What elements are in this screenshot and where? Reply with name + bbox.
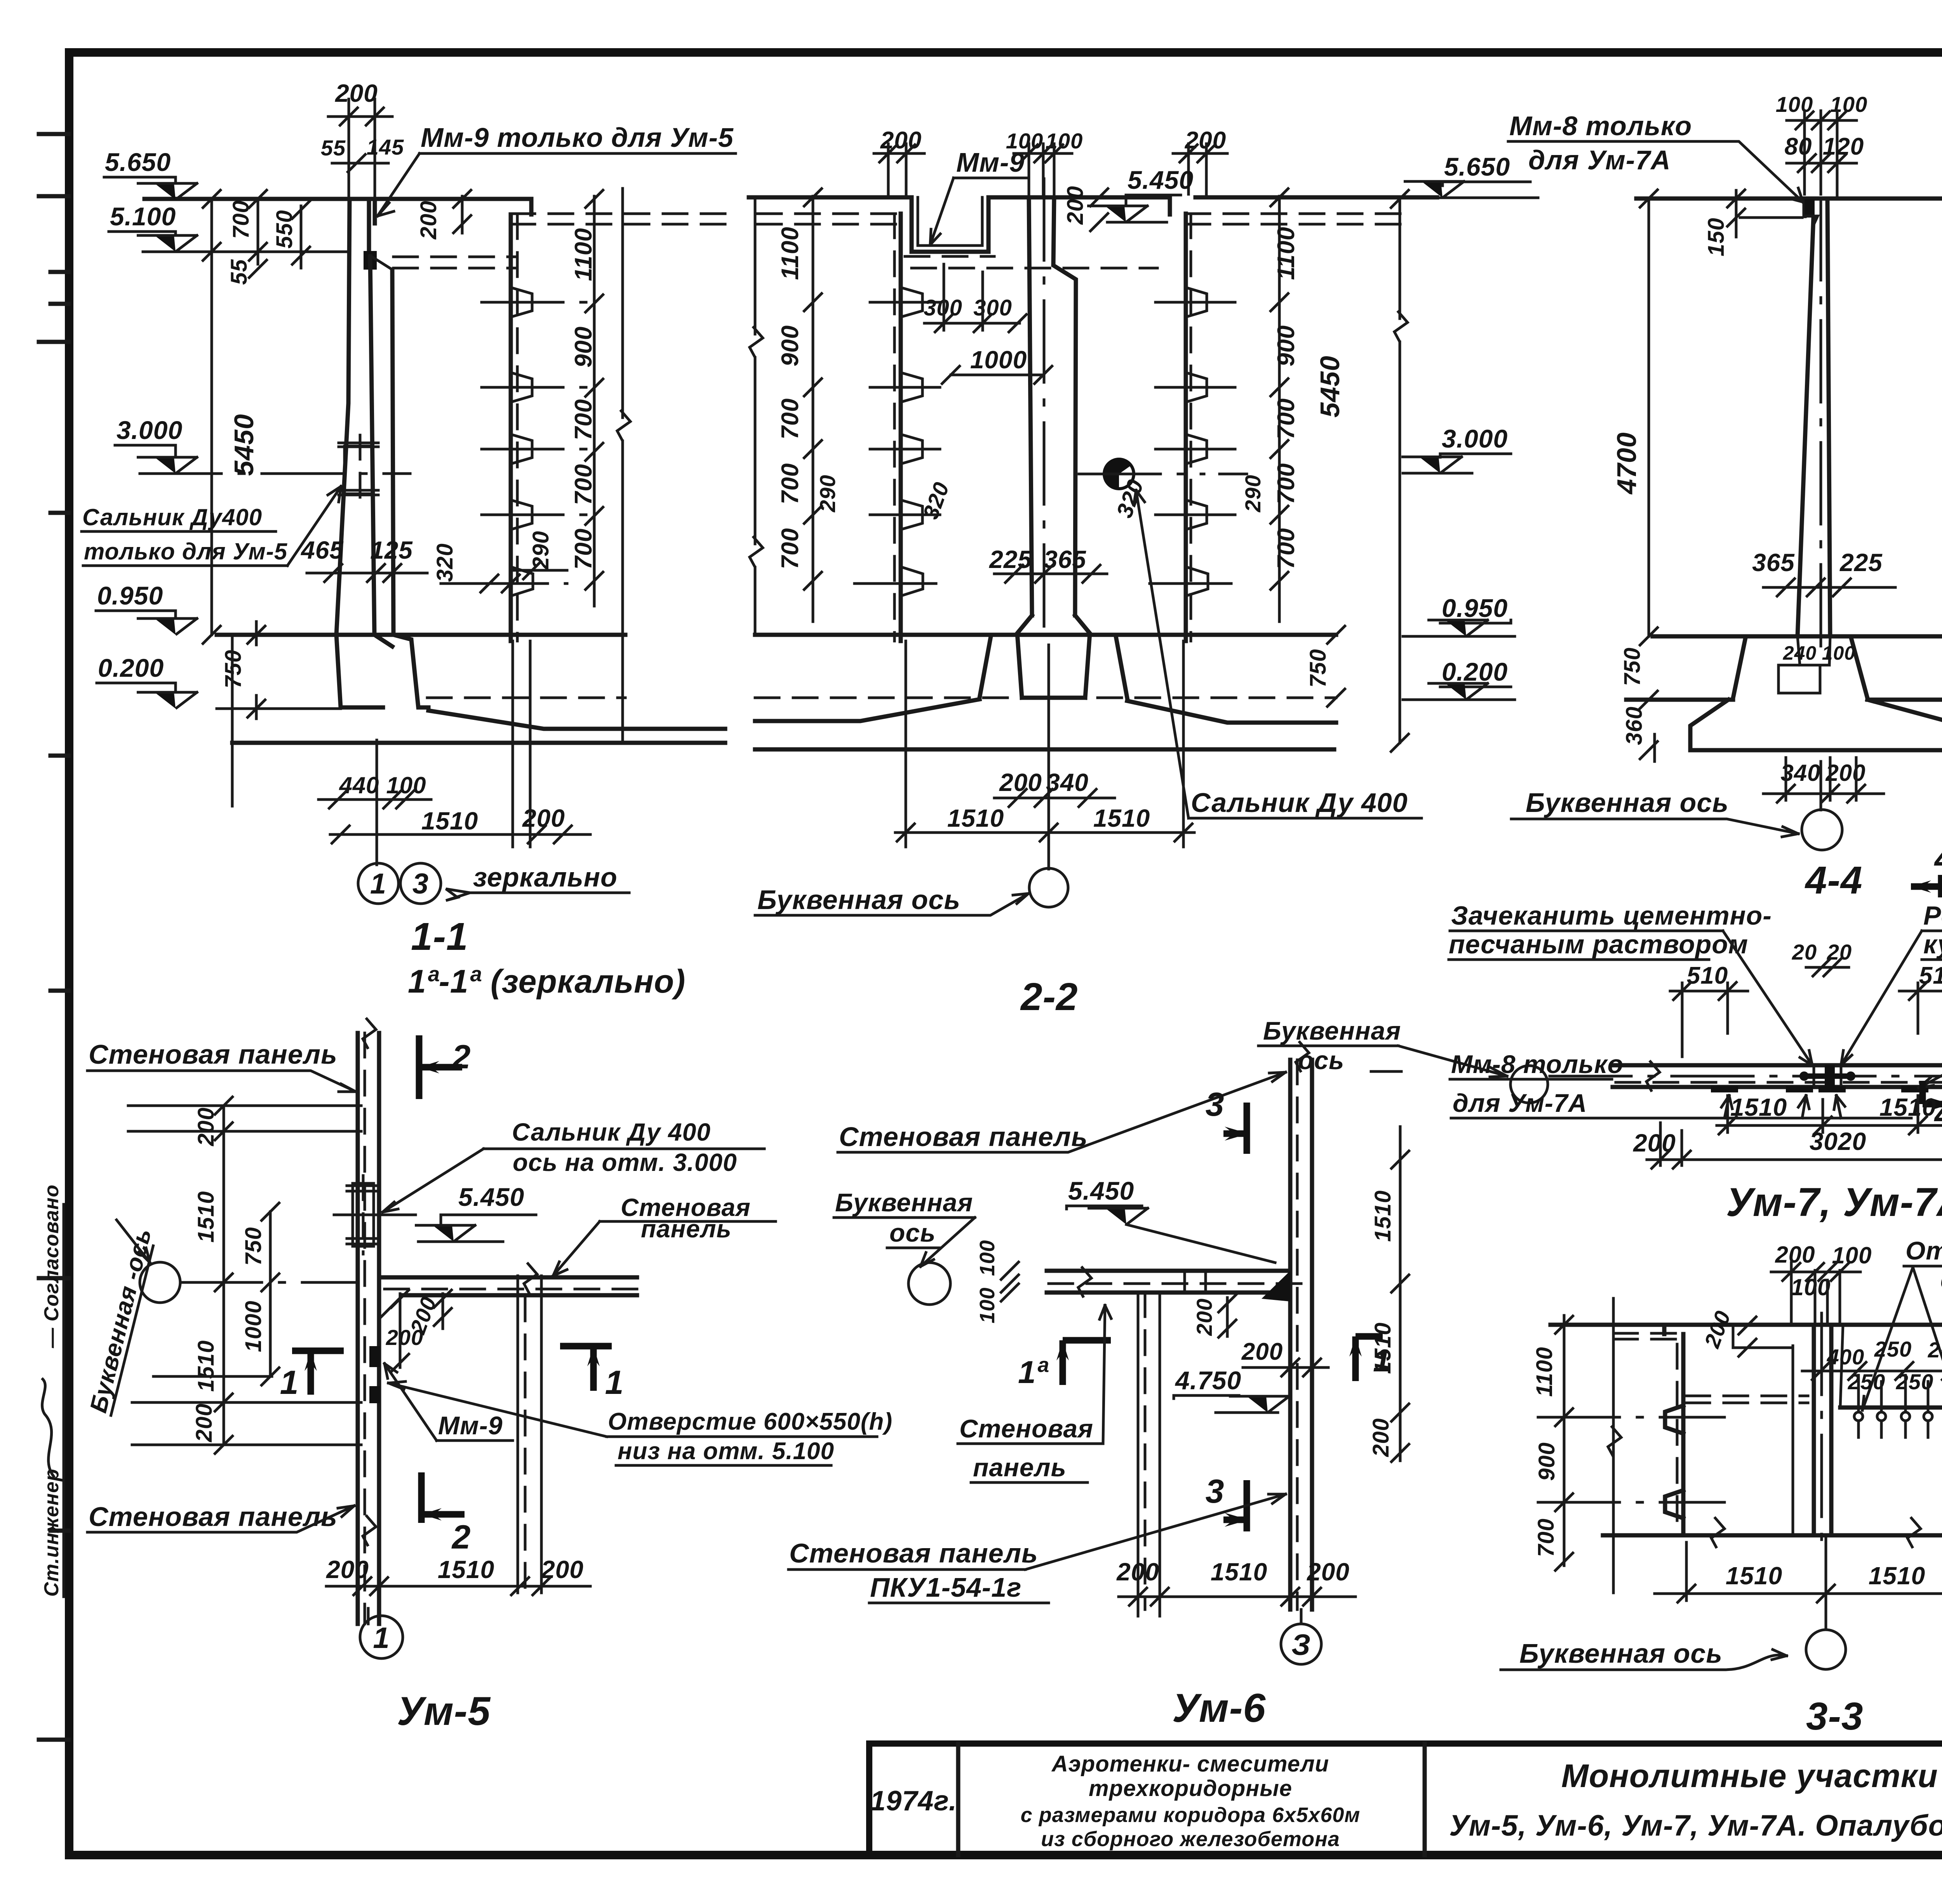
footing lower part	[1690, 700, 1942, 750]
svg-text:Ст.инженер: Ст.инженер	[40, 1469, 63, 1597]
svg-text:4-4: 4-4	[1805, 859, 1863, 902]
hidden top edges dashed right	[1186, 214, 1406, 224]
svg-text:0.200: 0.200	[98, 653, 164, 682]
svg-text:1: 1	[370, 868, 386, 900]
key center dash-dot	[1538, 1417, 1942, 1511]
svg-text:200: 200	[386, 1325, 423, 1350]
panel shear key 3	[511, 434, 532, 464]
panel shear key 4	[511, 500, 532, 530]
holes row d=25	[1854, 1412, 1942, 1421]
right panel keyed face	[1184, 214, 1188, 641]
Mm-9 plates on panel	[369, 1346, 380, 1403]
Mm-8 embedded marks	[1711, 1086, 1928, 1092]
wall foot outline	[1017, 615, 1090, 698]
svg-text:200: 200	[999, 768, 1042, 796]
embedded plate Mm-8 notch	[1805, 199, 1815, 218]
horizontal wall band	[1047, 1271, 1290, 1293]
base slab bottom	[232, 741, 725, 745]
svg-text:20: 20	[1792, 940, 1817, 964]
svg-text:4.750: 4.750	[1175, 1366, 1241, 1395]
svg-text:0.950: 0.950	[1442, 594, 1508, 622]
svg-text:510: 510	[1687, 962, 1728, 989]
svg-text:5.450: 5.450	[458, 1183, 524, 1211]
svg-text:200: 200	[1775, 1242, 1815, 1268]
svg-text:2-2: 2-2	[1020, 975, 1078, 1019]
svg-text:Отверстия: Отверстия	[1905, 1236, 1942, 1265]
panel joint face line	[392, 270, 393, 635]
hidden edge dashes at 5.100	[393, 257, 517, 268]
dim lines vertical	[224, 1106, 270, 1445]
svg-text:Сальник Ду400: Сальник Ду400	[82, 504, 262, 530]
svg-text:зеркально: зеркально	[473, 862, 618, 892]
panel hidden top edges dashed	[511, 214, 735, 224]
overall dim 5450	[211, 199, 213, 635]
svg-text:3-3: 3-3	[1806, 1695, 1864, 1738]
svg-text:— Согласовано: — Согласовано	[40, 1185, 63, 1348]
panel shear key 1	[511, 287, 532, 317]
level line el.0.200	[1626, 698, 1942, 702]
corner haunch triangle	[379, 1297, 401, 1319]
svg-text:d=25: d=25	[1940, 1265, 1942, 1294]
level line el.3.000 axis	[140, 472, 410, 475]
svg-text:700: 700	[570, 528, 597, 570]
svg-text:кулачковая шпонка: кулачковая шпонка	[1923, 930, 1942, 959]
central monolithic wall	[1029, 197, 1076, 615]
monolithic wall top thin part right edge	[369, 199, 375, 256]
svg-text:3.000: 3.000	[117, 416, 183, 444]
left panel top step	[1662, 1325, 1667, 1334]
top line el.5.650	[749, 195, 1437, 200]
Mm-9 channel recess at top	[912, 197, 988, 252]
axis circle	[1820, 761, 1822, 810]
svg-text:100: 100	[1832, 1242, 1872, 1268]
svg-text:240: 240	[1783, 642, 1817, 664]
axis circle 1 bottom	[367, 1608, 370, 1624]
svg-text:1510: 1510	[947, 804, 1004, 832]
hidden edges dashed to joint	[1686, 1396, 1808, 1403]
svg-text:100: 100	[1830, 92, 1867, 117]
svg-text:1510: 1510	[1370, 1190, 1396, 1242]
joint break in band	[1185, 1271, 1206, 1293]
lower right panel verticals	[518, 1297, 541, 1589]
svg-text:1: 1	[373, 1622, 390, 1655]
svg-text:только для Ум-5: только для Ум-5	[84, 538, 288, 564]
svg-text:1ª: 1ª	[1018, 1355, 1049, 1390]
svg-text:для Ум-7А: для Ум-7А	[1453, 1089, 1587, 1117]
joint in branch	[518, 1276, 541, 1297]
svg-text:100: 100	[1791, 1274, 1831, 1300]
svg-text:1510: 1510	[438, 1556, 494, 1583]
base slab below	[217, 707, 341, 710]
salnik filled circle	[1104, 459, 1134, 489]
svg-text:700: 700	[570, 464, 597, 505]
right side dims of Um-6	[1399, 1127, 1402, 1461]
svg-text:Буквенная ось: Буквенная ось	[1526, 787, 1729, 818]
svg-text:панель: панель	[641, 1215, 732, 1243]
svg-text:440: 440	[339, 772, 379, 798]
svg-text:Ум-5, Ум-6, Ум-7, Ум-7А. Опал: Ум-5, Ум-6, Ум-7, Ум-7А. Опалубочный чер…	[1449, 1809, 1942, 1842]
svg-text:1000: 1000	[970, 346, 1027, 374]
axis circle left	[1510, 1066, 1548, 1103]
footing upper trapezoid	[1733, 638, 1867, 698]
left panel keyed face	[899, 214, 903, 641]
left panel key 1	[1665, 1406, 1683, 1434]
svg-text:ПКУ1-54-1г: ПКУ1-54-1г	[870, 1572, 1022, 1603]
wall band plan	[1613, 1065, 1942, 1087]
svg-text:1100: 1100	[1273, 226, 1300, 280]
svg-text:Зачеканить цементно-: Зачеканить цементно-	[1451, 901, 1772, 930]
bottom line	[1603, 1533, 1942, 1538]
svg-text:80: 80	[1785, 133, 1812, 160]
svg-text:Стеновая: Стеновая	[959, 1414, 1093, 1443]
svg-text:Сальник Ду 400: Сальник Ду 400	[1191, 787, 1408, 818]
svg-text:320: 320	[432, 543, 458, 582]
svg-text:5.100: 5.100	[110, 202, 176, 231]
svg-text:трехкоридорные: трехкоридорные	[1089, 1776, 1292, 1801]
svg-text:365: 365	[1752, 549, 1795, 577]
svg-text:400: 400	[1827, 1345, 1864, 1369]
svg-text:1510: 1510	[1730, 1093, 1787, 1121]
svg-text:Ум-5: Ум-5	[397, 1689, 491, 1734]
svg-text:Буквенная: Буквенная	[1263, 1016, 1401, 1045]
svg-text:100: 100	[1046, 129, 1083, 153]
label bukvennaya os rotated	[85, 1226, 157, 1416]
svg-text:900: 900	[777, 325, 804, 366]
svg-text:700: 700	[1273, 528, 1300, 569]
svg-text:Аэротенки- смесители: Аэротенки- смесители	[1051, 1751, 1329, 1777]
dim 4700	[1648, 199, 1650, 636]
svg-text:из сборного железобетона: из сборного железобетона	[1041, 1827, 1340, 1851]
top line el.5.650	[1636, 197, 1942, 201]
svg-text:200: 200	[191, 1403, 217, 1442]
svg-text:225: 225	[989, 545, 1032, 573]
svg-text:4: 4	[1934, 840, 1942, 878]
svg-text:200: 200	[1633, 1129, 1676, 1157]
svg-text:700: 700	[777, 528, 804, 569]
lower panel pair from band	[1138, 1293, 1160, 1610]
svg-text:панель: панель	[973, 1453, 1067, 1482]
svg-text:1974г.: 1974г.	[870, 1786, 957, 1817]
salnik box on panel	[347, 1183, 379, 1246]
binder tick marks on left margin	[39, 134, 68, 1740]
vertical panel right	[1290, 1060, 1312, 1610]
svg-text:200: 200	[1063, 186, 1088, 225]
svg-text:Мм-9 только для Ум-5: Мм-9 только для Ум-5	[421, 122, 734, 153]
svg-text:750: 750	[1620, 647, 1645, 686]
svg-text:750: 750	[1305, 649, 1331, 688]
svg-text:1510: 1510	[1211, 1558, 1267, 1586]
svg-text:1: 1	[280, 1364, 299, 1401]
wall outline	[1798, 199, 1830, 636]
svg-text:4700: 4700	[1611, 432, 1642, 495]
svg-text:1510: 1510	[193, 1191, 219, 1242]
left panel keys	[901, 287, 922, 317]
extension verticals	[232, 635, 530, 865]
axis circle	[140, 1262, 180, 1303]
wall socket in footing	[1778, 636, 1830, 693]
svg-text:200: 200	[416, 200, 441, 240]
svg-text:200: 200	[1116, 1558, 1159, 1586]
svg-text:100: 100	[976, 1240, 999, 1276]
panel shear key 5 lower	[511, 567, 533, 596]
svg-text:1000: 1000	[241, 1300, 266, 1352]
svg-text:5.650: 5.650	[105, 148, 171, 176]
svg-text:Ум-7, Ум-7А: Ум-7, Ум-7А	[1726, 1180, 1942, 1225]
svg-text:с размерами коридора 6х5х60м: с размерами коридора 6х5х60м	[1021, 1803, 1361, 1827]
svg-text:Стеновая панель: Стеновая панель	[789, 1538, 1038, 1568]
wall axis dash-dot	[1820, 199, 1822, 660]
svg-text:700: 700	[570, 399, 597, 440]
svg-text:Буквенная ось: Буквенная ось	[1519, 1638, 1723, 1669]
svg-text:200: 200	[335, 79, 378, 107]
svg-text:5.450: 5.450	[1068, 1176, 1134, 1205]
left dim chain	[812, 196, 814, 622]
footing top line el.0.950	[1653, 634, 1942, 639]
svg-text:200: 200	[326, 1556, 369, 1583]
svg-text:Буквенная: Буквенная	[835, 1188, 973, 1217]
svg-text:700: 700	[1273, 463, 1300, 504]
top line el.5.650	[1550, 1323, 1942, 1327]
svg-text:250: 250	[1874, 1337, 1912, 1361]
svg-text:250: 250	[1848, 1369, 1885, 1394]
left dim chain	[1563, 1315, 1566, 1566]
svg-text:Мм-8 только: Мм-8 только	[1451, 1050, 1624, 1078]
rubber waterstop symbol	[1825, 1065, 1835, 1087]
level line el.4.750	[1840, 1406, 1942, 1410]
svg-text:55: 55	[226, 259, 252, 285]
panel shear key 2	[511, 373, 532, 402]
key center axes dash-dot	[466, 302, 598, 584]
left panel keyed edge	[1681, 1334, 1686, 1535]
svg-text:1100: 1100	[1532, 1347, 1557, 1397]
svg-text:200: 200	[880, 127, 922, 154]
overall dim 5450 right	[1399, 197, 1401, 743]
svg-text:700: 700	[1273, 398, 1300, 439]
svg-text:900: 900	[1273, 325, 1300, 366]
svg-text:0.200: 0.200	[1442, 657, 1508, 686]
footing top line el.0.950	[217, 633, 625, 637]
svg-text:песчаным раствором: песчаным раствором	[1449, 930, 1748, 959]
svg-text:125: 125	[370, 536, 413, 564]
svg-text:700: 700	[777, 398, 804, 439]
svg-text:100: 100	[386, 772, 426, 798]
svg-text:700: 700	[777, 463, 804, 504]
dim 200 at top	[328, 99, 392, 199]
svg-text:Монолитные участки стен.: Монолитные участки стен.	[1561, 1758, 1942, 1794]
svg-text:ось: ось	[889, 1218, 936, 1247]
extension verticals to dims	[906, 641, 1183, 869]
left margin signature (rotated)	[40, 1185, 64, 1597]
svg-text:Мм-8 только: Мм-8 только	[1509, 111, 1692, 141]
svg-text:ось на отм. 3.000: ось на отм. 3.000	[513, 1148, 737, 1176]
salnik gland box on wall	[339, 443, 378, 495]
footing outline	[336, 635, 428, 707]
horizontal wall branch	[379, 1277, 637, 1295]
svg-text:1510: 1510	[1093, 804, 1150, 832]
corner fill triangle	[1262, 1271, 1290, 1301]
svg-text:900: 900	[570, 326, 597, 368]
svg-text:1510: 1510	[1869, 1562, 1925, 1590]
svg-text:750: 750	[241, 1227, 266, 1266]
svg-text:290: 290	[1241, 475, 1265, 512]
svg-text:3: 3	[1206, 1473, 1225, 1510]
svg-text:1: 1	[605, 1364, 624, 1401]
svg-text:Стеновая панель: Стеновая панель	[89, 1039, 338, 1070]
svg-text:225: 225	[1839, 549, 1883, 577]
hidden top edges dashed left	[757, 214, 901, 224]
level line el.5.100	[143, 251, 347, 253]
svg-text:1100: 1100	[570, 228, 597, 281]
notch at joint top	[1733, 1325, 1793, 1348]
svg-text:5.450: 5.450	[1128, 165, 1194, 194]
svg-text:Ум-6: Ум-6	[1172, 1686, 1266, 1731]
panel footing slopes	[980, 636, 1127, 698]
svg-text:Стеновая панель: Стеновая панель	[839, 1122, 1088, 1152]
svg-text:2: 2	[451, 1519, 471, 1556]
svg-text:Резиновая трех-: Резиновая трех-	[1923, 901, 1942, 930]
svg-text:1-1: 1-1	[411, 915, 468, 958]
right dim chain	[1278, 196, 1281, 622]
svg-text:0.950: 0.950	[97, 581, 163, 610]
embedded channel plate Mm-9 at wall top	[364, 251, 377, 270]
svg-text:3: 3	[412, 868, 429, 900]
svg-text:1ª-1ª (зеркально): 1ª-1ª (зеркально)	[408, 963, 686, 1000]
svg-text:3: 3	[1206, 1086, 1225, 1123]
axis level line through gland el.3.000	[1079, 473, 1247, 476]
svg-text:900: 900	[1534, 1442, 1559, 1481]
svg-text:1510: 1510	[193, 1340, 219, 1392]
svg-text:200: 200	[1307, 1558, 1350, 1586]
axis circle	[1806, 1630, 1846, 1669]
svg-text:300: 300	[973, 295, 1012, 321]
svg-text:5.650: 5.650	[1444, 152, 1510, 181]
svg-text:340: 340	[1046, 768, 1089, 796]
svg-text:100: 100	[1776, 92, 1813, 117]
svg-text:200: 200	[1192, 1298, 1216, 1336]
svg-text:465: 465	[300, 536, 344, 564]
svg-text:5450: 5450	[1315, 355, 1345, 418]
wall right edge	[370, 256, 374, 635]
wall top line at el.5.650	[144, 199, 531, 214]
svg-text:1100: 1100	[777, 226, 804, 280]
svg-text:360: 360	[1622, 706, 1647, 745]
axis circle 3 bottom	[1300, 1610, 1303, 1624]
svg-text:100: 100	[1006, 129, 1043, 153]
right boundary line with breaks	[621, 188, 624, 740]
svg-text:3020: 3020	[1810, 1127, 1866, 1155]
axis circles 1 and 3	[358, 863, 398, 904]
svg-text:З: З	[1291, 1629, 1311, 1662]
axis circle	[1029, 868, 1068, 907]
svg-text:Стеновая панель: Стеновая панель	[89, 1502, 338, 1532]
panel keyed face	[509, 214, 513, 641]
svg-text:Сальник Ду 400: Сальник Ду 400	[512, 1118, 711, 1146]
svg-text:для Ум-7А: для Ум-7А	[1528, 145, 1671, 175]
svg-text:Отверстие 600×550(h): Отверстие 600×550(h)	[608, 1408, 893, 1435]
dim line at 1 marks	[153, 1375, 272, 1378]
svg-text:Буквенная ось: Буквенная ось	[757, 885, 961, 915]
svg-text:150: 150	[1704, 218, 1729, 256]
svg-text:3.000: 3.000	[1442, 424, 1508, 453]
left cut boundary with breaks	[754, 197, 757, 635]
top step right panel	[1168, 197, 1172, 214]
center joint verticals	[1814, 1065, 1841, 1087]
svg-text:5450: 5450	[229, 414, 259, 476]
svg-text:145: 145	[367, 135, 404, 159]
footing top line el.0.950	[755, 633, 1336, 637]
svg-text:700: 700	[1533, 1518, 1559, 1557]
wall step at el.5.100	[370, 256, 392, 270]
right dim chain	[593, 196, 596, 606]
svg-text:290: 290	[815, 475, 840, 512]
monolithic wall left edge	[336, 199, 350, 635]
vertical wall panel pair	[358, 1033, 379, 1624]
base slab slopes	[755, 699, 1336, 723]
svg-text:1510: 1510	[421, 807, 478, 835]
svg-text:100: 100	[1822, 642, 1855, 664]
svg-text:290: 290	[528, 531, 553, 570]
svg-text:Мм-9: Мм-9	[438, 1411, 503, 1440]
svg-text:55: 55	[321, 136, 346, 160]
svg-text:низ на отм. 5.100: низ на отм. 5.100	[618, 1438, 834, 1465]
svg-text:100: 100	[976, 1287, 999, 1323]
svg-text:1: 1	[1373, 1343, 1391, 1378]
svg-text:250: 250	[1928, 1338, 1942, 1362]
left panel key 2	[1665, 1490, 1683, 1518]
svg-text:200: 200	[1368, 1418, 1394, 1457]
svg-text:200: 200	[1241, 1338, 1283, 1365]
axis circle	[908, 1263, 950, 1305]
left panel outer edge	[1612, 1298, 1615, 1593]
svg-text:1510: 1510	[1726, 1562, 1782, 1590]
central joint verticals	[1814, 1325, 1831, 1535]
